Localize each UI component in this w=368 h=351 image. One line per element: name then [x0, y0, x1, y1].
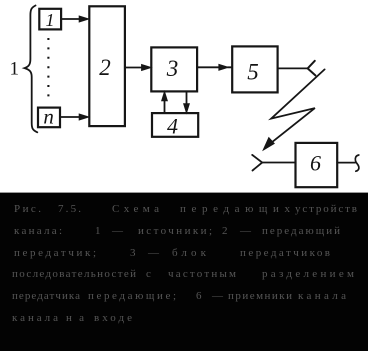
- block 5: [232, 46, 277, 92]
- block 2: [89, 6, 125, 126]
- antenna 1 (transmit): [308, 61, 316, 76]
- svg-text:2: 2: [99, 55, 111, 80]
- svg-text:6: 6: [310, 151, 321, 176]
- wire block 4 to block 3 (up arrow): [164, 100, 166, 114]
- brace: [25, 6, 38, 133]
- wire block 3 to block 4 (down arrow): [186, 92, 188, 106]
- svg-text:3: 3: [166, 56, 179, 81]
- wire block 2 to block 3: [125, 67, 143, 69]
- box n (channel n): [38, 108, 60, 128]
- wire box n to block 2: [60, 116, 81, 118]
- svg-text:5: 5: [247, 60, 259, 85]
- block 6: [296, 143, 338, 187]
- wire block 5 to antenna 1: [278, 67, 308, 69]
- wire antenna 2 to block 6: [262, 162, 295, 164]
- svg-text:передатчик;3—блокпередатчиков: передатчик;3—блокпередатчиков: [14, 247, 330, 259]
- svg-text:n: n: [43, 105, 54, 129]
- svg-text:1: 1: [46, 10, 55, 30]
- lightning bolt (radio link): [269, 69, 325, 144]
- block 3: [151, 47, 197, 91]
- block 4: [152, 113, 198, 137]
- svg-text:4: 4: [167, 114, 178, 139]
- box 1 (channel 1): [39, 9, 61, 30]
- dotted line: [47, 38, 49, 101]
- svg-text:1: 1: [10, 59, 20, 80]
- wire box1 to block 2: [61, 18, 80, 20]
- antenna 2 (receive): [252, 155, 262, 171]
- svg-text:последовательностейсчастотнымр: последовательностейсчастотнымразделением: [12, 268, 354, 280]
- squiggle (output continuation): [355, 155, 359, 171]
- caption text: [12, 203, 357, 324]
- wire block 6 output: [337, 162, 355, 164]
- caption block (black): [0, 193, 368, 351]
- wire block 3 to block 5: [197, 66, 232, 68]
- svg-text:Рис.7.5.Схемапередающихустройс: Рис.7.5.Схемапередающихустройств: [14, 203, 357, 215]
